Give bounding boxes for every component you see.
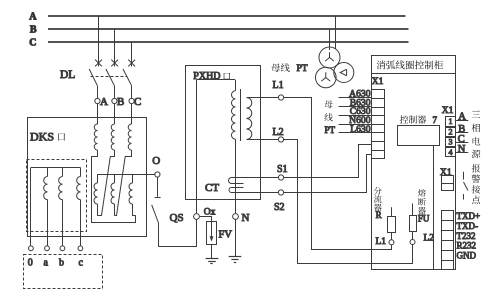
node N [233,214,239,220]
current transformer CT upper loop [229,178,279,184]
bus B [48,28,409,30]
alarm contact symbol [463,172,465,180]
breaker DL blade pole B [106,69,115,86]
svg-text:L1: L1 [273,80,284,91]
wire upper C to lower B (zigzag slant) [115,150,132,216]
svg-text:PXHD: PXHD [193,71,220,82]
terminal dashed box [24,255,103,289]
svg-text:O: O [152,155,160,167]
DKS upper winding phase B [111,124,114,150]
svg-text:DKS: DKS [30,130,54,144]
svg-text:R232: R232 [457,241,477,251]
fuse FU [412,204,414,216]
svg-text:PT: PT [297,64,308,74]
cabinet title [377,60,386,69]
wire L1 to shunt L1 [284,98,392,250]
svg-text:S1: S1 [277,164,288,175]
svg-text:TXD+: TXD+ [457,211,481,221]
wire bus C to DL pole C [131,42,133,67]
DKS lower winding phase A [94,183,98,204]
shunt resistor R [391,207,393,217]
svg-text:X1: X1 [442,106,454,116]
wire L2 to fuse L2 [284,140,413,264]
svg-text:L630: L630 [350,124,370,135]
DKS lower winding phase B [111,183,115,204]
node B terminal [112,98,117,103]
svg-text:R: R [376,210,382,220]
wire upper A to lower C (around) [92,150,136,223]
wire bus B to PT [329,29,331,50]
wire node B into DKS [114,104,116,124]
arrester FV [207,222,217,245]
wire C630 [339,115,372,117]
wire controller to cabinet bottom [433,145,435,269]
wire FV to ground [211,244,213,258]
wire Ox riser to primary top [196,80,198,213]
svg-text:4: 4 [449,148,453,157]
controller U7 box [398,126,440,146]
three-phase power label [472,111,481,118]
svg-text:FU: FU [418,213,430,223]
breaker DL linkage dashed [91,76,128,78]
svg-text:A: A [100,96,108,108]
wire blade B to node B [114,86,116,99]
wire blade C to node C [131,86,133,99]
disconnect mark pole C [128,60,135,67]
svg-text:1: 1 [449,117,453,126]
svg-text:3: 3 [449,137,453,146]
bus A [48,15,406,17]
node A terminal [95,98,100,103]
alarm contact label [472,164,480,172]
shunt label [374,187,382,195]
current transformer CT lower loop [229,188,278,193]
terminal block 1 [446,117,456,127]
bus PT secondary label [324,100,332,108]
DKS lower winding phase C [129,183,133,204]
svg-text:N: N [458,144,466,155]
svg-text:PT: PT [325,125,336,135]
terminal L2 fuse [410,240,415,245]
svg-text:GND: GND [457,251,477,261]
wire node C into DKS [131,104,133,124]
svg-text:C: C [29,38,36,49]
svg-text:7: 7 [433,115,438,125]
neutral stubs to lower windings [97,174,99,183]
disconnector QS blade [152,205,159,224]
wire A630 [339,97,372,99]
comm terminal blocks [442,211,454,261]
wire bus A to PT [335,16,337,49]
wire bus B to DL pole B [114,29,116,67]
node Ox [194,214,200,220]
terminal strip X1 left [372,90,385,159]
cabinet title bar [372,73,456,75]
strip legs to cabinet bottom [441,260,443,269]
terminal block 3 [446,138,456,147]
wire primary bottom to N [235,139,237,213]
svg-text:L2: L2 [424,233,435,243]
svg-text:S2: S2 [274,202,285,213]
terminal block 4 [446,148,456,157]
svg-text:FV: FV [219,230,233,241]
wire N600 [339,124,372,126]
svg-text:a: a [43,257,48,268]
wire secondary top to L1 [247,97,279,99]
wire terminal 0 [30,168,32,246]
svg-text:2: 2 [449,128,453,137]
svg-text:CT: CT [205,182,219,194]
disconnect mark pole A [95,60,102,67]
voltage transformer PT winding 2 [316,67,337,88]
control cabinet box [372,56,456,270]
secondary common bar [31,167,81,169]
wire bus A to DL pole A [98,16,100,67]
wire O to QS fixed contact [157,177,159,197]
disconnect mark pole B [111,60,118,67]
secondary winding a [47,168,49,177]
bus PT label [271,64,280,72]
node C terminal [129,98,134,103]
PXHD primary winding [231,91,235,139]
wire QS to Ox [158,224,160,247]
controller label [400,115,408,123]
wire blade A to node A [97,86,99,99]
svg-text:DL: DL [60,69,75,81]
wire node A into DKS [97,104,99,124]
terminal block 2 [446,128,456,137]
alarm terminal blocks [442,176,454,191]
breaker DL blade pole C [123,69,132,86]
svg-text:C: C [134,96,141,108]
arc-suppression coil PXHD box [186,66,261,200]
voltage transformer PT winding 3 open delta [334,63,354,83]
DKS upper winding phase C [128,124,131,150]
terminal L1 shunt [389,240,394,245]
secondary winding b [62,168,64,177]
svg-text:A: A [29,12,37,23]
breaker DL blade pole A [89,69,97,86]
transformer DKS enclosure [28,118,147,237]
svg-text:B: B [117,96,124,108]
ground below N [229,256,242,258]
svg-text:L1: L1 [376,237,387,247]
voltage transformer PT winding 1 [319,47,340,68]
svg-text:QS: QS [170,212,184,224]
svg-text:0: 0 [28,257,33,268]
PXHD core [240,89,242,141]
svg-text:B: B [30,25,37,36]
wire N to ground [235,219,237,257]
DKS secondary dashed box [27,160,87,232]
svg-text:X1: X1 [372,77,384,87]
wire neutral to node O [97,174,154,176]
terminal a [45,246,50,251]
wire S1 to cabinet X1 [284,145,372,178]
wire secondary bottom to L2 [247,139,279,141]
terminal b [60,246,65,251]
bus C [48,41,409,43]
terminal c [78,246,83,251]
ground below FV [206,258,219,260]
fuse label [418,189,426,197]
svg-text:TXD-: TXD- [457,221,479,231]
svg-text:b: b [59,257,64,268]
svg-text:T232: T232 [457,231,476,241]
terminal 0 [29,246,34,251]
wire S2 to cabinet X1 [284,155,372,193]
secondary winding c [80,168,82,177]
wire L630 [339,132,372,134]
wire B630 [339,106,372,108]
svg-text:N: N [242,212,250,224]
wire Ox to arrester FV [200,216,212,218]
svg-text:c: c [78,257,83,268]
wire upper B to lower A (zigzag slant) [98,150,115,216]
PXHD secondary winding [247,98,252,140]
DKS upper winding phase A [94,124,97,150]
